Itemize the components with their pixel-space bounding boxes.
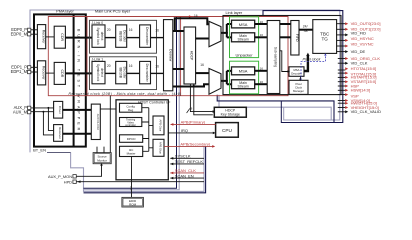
DPCD box [120,135,143,143]
source monitor box (double border) [93,153,111,164]
deskew block [164,20,173,91]
chip boundary navy shadow: bottom notch [84,146,206,193]
host internal bus [142,108,153,152]
output HSTART[15:0] [338,76,346,78]
red clock-domain box A [48,17,288,96]
red clock-domain divider 1 [86,17,88,96]
symbol lock detect lane0 [92,25,105,47]
svg-text:16: 16 [155,29,159,33]
svg-text:PMA layer: PMA layer [56,8,74,13]
wire + 16 label lane0 [127,37,140,39]
svg-text:EDP1_M: EDP1_M [11,69,28,74]
output VID_CLK [338,62,346,64]
8B/10B decoder lane0 [116,25,127,47]
FIFO block [291,21,299,56]
svg-text:AUX CH Ctrl: AUX CH Ctrl [96,114,100,131]
svg-text:20: 20 [107,64,111,68]
svg-text:AUX_M: AUX_M [13,110,28,115]
svg-text:Decoder: Decoder [122,67,126,80]
output VSP [338,94,346,96]
wire EDP1_P [31,66,38,68]
AUX receiver [54,125,63,142]
link layer box [223,16,341,95]
output VTOTAL[15:0] [338,72,346,74]
HDCP key wires [190,84,212,112]
receiver lane1 [37,61,45,85]
AUX CH controller [91,104,100,139]
svg-text:16: 16 [129,28,133,32]
svg-text:Symbol lock: Symbol lock [96,28,100,46]
wire subsampling to MSA decoder [280,51,288,72]
MSA box lane1 [232,67,255,75]
sub-sampling block [267,21,280,94]
output HSP [338,85,346,87]
CDR lane0 [54,26,65,48]
svg-text:Unpacker: Unpacker [235,53,253,58]
unpacker 0 green box [230,17,259,58]
wire CDR1 to symbol lock (thick) [65,72,92,74]
svg-text:Decoder: Decoder [122,30,126,43]
svg-text:16: 16 [260,80,264,84]
svg-text:detect: detect [100,68,104,77]
svg-text:I2C: I2C [129,187,133,191]
svg-text:APB Glue: APB Glue [158,119,162,131]
svg-text:Receiver: Receiver [42,30,46,45]
wire AUX_P net [31,108,54,130]
source monitor input stubs [97,147,104,153]
AUX driver [54,101,63,118]
bypass wire lane0 over HDCP + 16 label [175,18,209,31]
svg-text:Pixel clock: Pixel clock [303,58,322,62]
mux 1 [209,69,221,95]
wire pcs to source monitor [109,96,111,153]
wire receiver0 to CDR0 [46,36,55,38]
output VHEIGHT[15:0] [338,107,346,109]
svg-text:Deskew: Deskew [169,49,173,62]
output VID_ORIG_CLK [338,58,346,60]
svg-text:J-Link 0: J-Link 0 [92,21,104,25]
main stream box lane1 [232,80,255,89]
svg-text:8B/10B: 8B/10B [119,67,123,77]
svg-text:AUX_P_MON: AUX_P_MON [48,174,72,179]
APB secondary wire (red, arrow right) [164,145,213,147]
svg-text:detect: detect [100,32,104,41]
output VID_HSYNC [337,39,346,41]
wire subsampling to FIFO a [280,23,291,25]
wire AUX_P_MON to source monitor [76,165,101,176]
svg-text:HPD: HPD [64,179,72,184]
wire descrambler0 to deskew + 16 [151,37,164,39]
svg-text:Recovered clock (20B) - 8bits: Recovered clock (20B) - 8bits data rate,… [69,92,182,96]
wire MSA decoder to pixel clock manager [300,76,302,79]
wire + 16 label lane1 [127,72,140,74]
wire MS1 to subsampling + 16 [255,83,268,85]
svg-text:ROM: ROM [129,203,137,207]
svg-text:VID_CLK: VID_CLK [351,61,368,66]
svg-text:Receiver: Receiver [42,66,46,81]
pixel clock manager block [289,80,308,94]
MSA decoder block [289,67,304,77]
svg-text:8B/10B: 8B/10B [119,31,123,41]
svg-text:16: 16 [260,67,264,71]
wire AUX_M net [31,112,54,135]
I2C master box [120,146,143,156]
svg-text:Driver: Driver [58,106,62,114]
svg-text:Descrambler: Descrambler [145,27,149,46]
chip boundary navy shadow: top and right wrap to link bottom [217,11,343,123]
svg-text:VID_FID: VID_FID [351,31,367,36]
svg-text:Monitor: Monitor [97,158,107,162]
chip outer boundary light slate: left, top, right, inner notch [30,10,340,152]
svg-text:HTOTAL[15:0]: HTOTAL[15:0] [351,66,377,71]
wire HDCP out lane1b to mux [173,84,209,86]
wire I2C master to EDID ROM [131,157,133,198]
CPU box [216,123,239,138]
receiver lane0 [37,25,45,49]
wire FIFO to TBC + 24/48 label [299,29,313,31]
svg-text:VID_VSYNC: VID_VSYNC [351,42,374,47]
svg-text:16: 16 [194,14,198,18]
red clock-domain divider 2 [180,17,182,96]
wire MS0 to subsampling + 16 [255,36,268,38]
J-Link 0 group box [90,20,157,53]
svg-text:MSA: MSA [239,22,248,27]
APB glue 1 [153,116,164,135]
wire EDP1_M [31,71,38,73]
APB primary wire (red, arrow left) [171,123,216,125]
HDCP block [184,27,196,84]
IRQ wire [168,132,213,134]
output VID_OUT1[23:0] [337,28,346,30]
svg-text:Main Link PCS layer: Main Link PCS layer [95,8,131,13]
wrapper divider [73,14,75,146]
svg-text:VID_DE: VID_DE [351,49,366,54]
wire HPD [76,181,204,183]
wire MSA0 to subsampling + 16 [255,23,268,25]
svg-text:HDCP: HDCP [190,51,194,61]
svg-text:20: 20 [107,28,111,32]
wire HDCP out lane0 to mux + 16 [196,38,209,40]
svg-text:SCAN_EN: SCAN_EN [175,173,194,178]
mux 0 [209,21,221,46]
svg-text:APB(Primary): APB(Primary) [181,119,206,124]
svg-text:Receiver: Receiver [58,127,62,139]
config reg box [120,103,142,112]
wire driver to aux ctrl (thick) [63,109,92,111]
red direction mark on domain line [189,15,192,17]
svg-text:BURN-IN TEST WRAPPER: BURN-IN TEST WRAPPER [76,29,80,133]
output HTOTAL[15:0] [338,69,346,71]
PMA / test wrapper thick box [34,14,86,146]
svg-text:FIFO: FIFO [295,34,299,42]
svg-text:Manager: Manager [293,89,304,93]
wire EDP0_P to receiver [31,29,38,31]
chip boundary light slate: bottom-left step and bottom notch [71,146,204,191]
CDR lane1 [54,62,65,84]
svg-text:CDR: CDR [60,70,64,78]
svg-text:controller: controller [125,123,136,127]
HOST controller IF box [116,100,168,180]
symbol lock detect lane1 [92,61,105,83]
J-Link 1 group box [90,57,157,90]
svg-text:16: 16 [260,33,264,37]
wire MSA decoder to TBC (thick, arrow up) [304,56,308,72]
svg-text:Key Storage: Key Storage [221,113,240,117]
wire + 20 label lane1 [105,72,116,74]
svg-text:CDR: CDR [60,33,64,41]
HDCP key storage box [214,107,246,117]
output HSW[14:0] [338,89,346,91]
svg-text:APB(Secondary): APB(Secondary) [180,141,210,146]
wire aux ctrl to host [100,108,116,110]
svg-text:Stream: Stream [237,38,248,42]
svg-text:VID_OUT0[23:0]: VID_OUT0[23:0] [351,21,381,26]
svg-text:Decoder: Decoder [291,72,302,76]
svg-text:HSW[14:0]: HSW[14:0] [351,88,371,93]
descrambler lane0 [140,25,151,47]
svg-text:16: 16 [155,65,159,69]
svg-text:Reg: Reg [128,108,134,112]
svg-text:16: 16 [200,63,204,67]
svg-text:APB Glue: APB Glue [158,142,162,154]
output VID_OUT0[23:0] [337,23,346,25]
output VSTART[15:0] [338,81,346,83]
wire MSA1 to subsampling + 16 [255,70,268,72]
output VID_VSYNC [337,45,346,47]
main stream box lane0 [232,33,255,42]
pixel clock dashed blue wire [301,55,325,80]
wire descrambler1 to deskew + 16 [151,72,164,74]
wire subsampling to FIFO b [280,36,291,38]
output VID_DE [337,51,346,53]
output VSW[14:0] [338,99,346,101]
descrambler lane1 [140,61,151,83]
svg-text:16: 16 [129,64,133,68]
inner vertical bus pair left (navy) [84,17,177,188]
wire EDP0_M to receiver [31,33,38,35]
svg-text:J-Link 1: J-Link 1 [92,57,104,61]
svg-text:48: 48 [304,29,308,33]
svg-text:IRQ: IRQ [181,128,188,133]
svg-text:Stream: Stream [237,85,248,89]
svg-text:Link layer: Link layer [226,10,243,15]
svg-text:TG: TG [322,37,329,42]
output VID_CLK_VALID [338,111,346,113]
svg-text:EDP0_M: EDP0_M [11,31,28,36]
TBC TG block [313,20,337,54]
APB glue 2 [153,139,164,156]
wire receiver1 to CDR1 [46,72,55,74]
svg-text:HOST Controller I/F: HOST Controller I/F [138,101,171,105]
output VID_FID [337,34,346,36]
wire HDCP out lane1a to mux [196,72,209,74]
wire mux1 out to unpacker1 [221,71,232,84]
wire + 20 label lane0 [105,37,116,39]
svg-text:CPU: CPU [222,128,233,133]
wire receiver to aux ctrl (thick) [63,133,92,135]
MSA box lane0 [232,20,255,28]
bus width slash 8 [187,108,190,113]
svg-text:16: 16 [260,20,264,24]
8B/10B decoder lane1 [116,61,127,83]
unpacker 1 green box [230,61,259,94]
svg-text:VID_HSYNC: VID_HSYNC [351,36,374,41]
svg-text:Sub-sampling: Sub-sampling [274,47,278,67]
output HWIDTH[15:0] [338,102,346,104]
wire CDR0 to symbol lock (thick) [65,37,92,39]
svg-text:DPCD: DPCD [127,137,137,141]
svg-text:Symbol lock: Symbol lock [96,64,100,82]
source video controller box [120,118,142,127]
EDID ROM box (double border, external) [122,197,143,207]
wire deskew out lane1 to HDCP [173,68,184,70]
svg-text:BT_EN: BT_EN [33,148,46,153]
wire deskew out lane0 to HDCP [173,30,184,32]
wire mux0 out to unpacker0 [221,24,232,37]
svg-text:MSA: MSA [239,69,248,74]
svg-text:VID_CLK_VALID: VID_CLK_VALID [351,109,382,114]
inner vertical bus pair left (light) [84,17,180,190]
svg-text:Master: Master [127,152,136,156]
svg-text:Descrambler: Descrambler [145,64,149,83]
